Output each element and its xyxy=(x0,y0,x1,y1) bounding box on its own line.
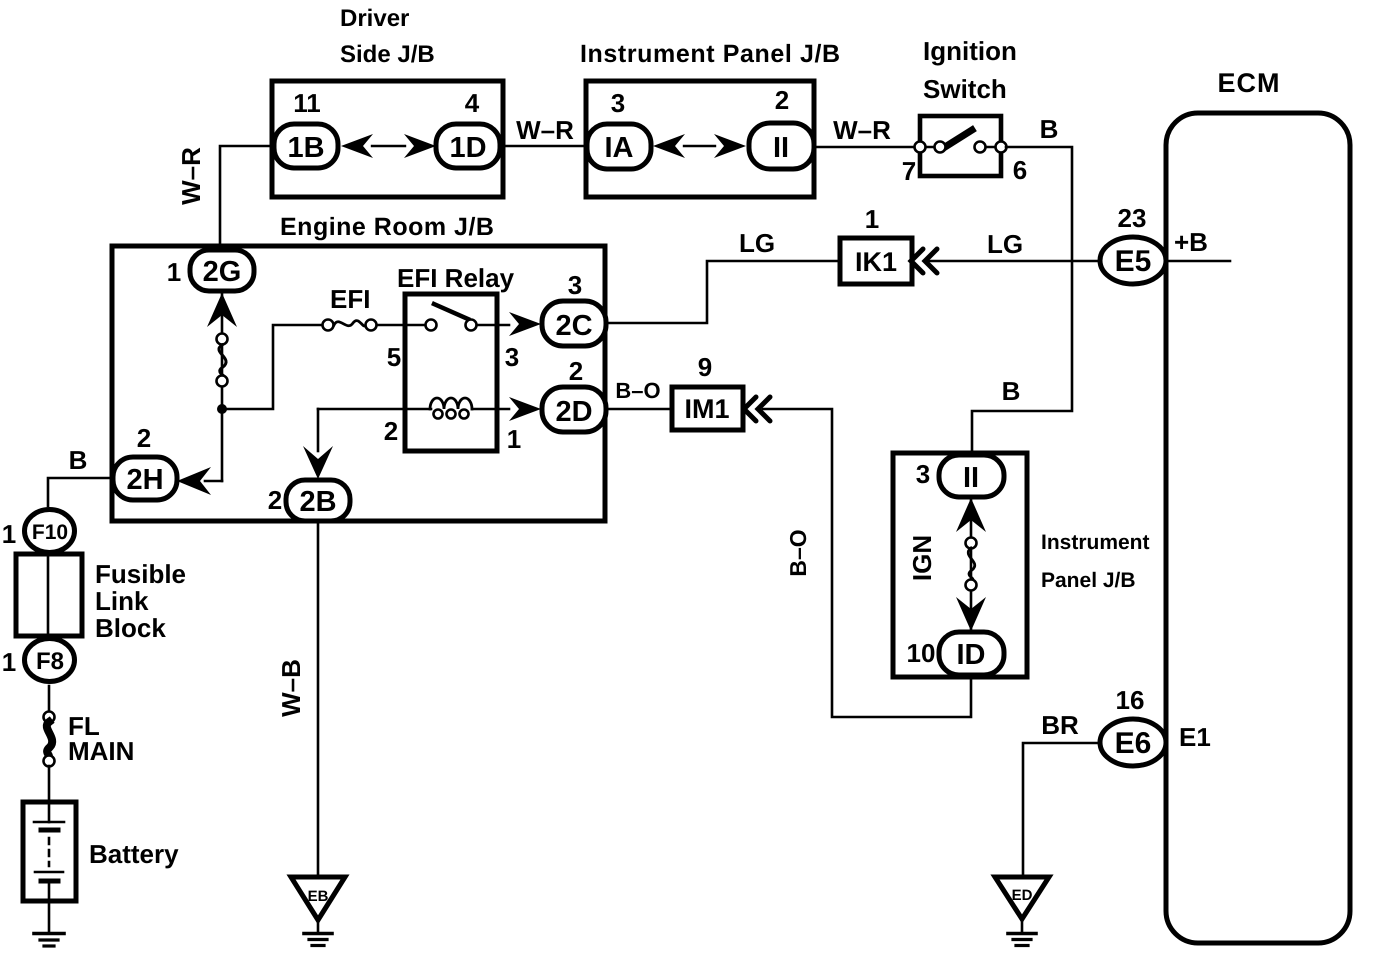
svg-text:ECM: ECM xyxy=(1218,68,1281,98)
svg-text:Driver: Driver xyxy=(340,5,409,32)
ground ED triangle xyxy=(995,877,1049,919)
battery internal lead top xyxy=(48,802,51,822)
svg-text:ED: ED xyxy=(1012,887,1033,904)
ground ED stem and bars xyxy=(1021,919,1024,932)
wire FL MAIN to battery xyxy=(48,766,51,802)
svg-text:23: 23 xyxy=(1118,203,1147,233)
wire 1B to left then down xyxy=(220,146,274,250)
svg-text:1B: 1B xyxy=(287,132,324,164)
ground battery bars xyxy=(34,932,64,936)
svg-text:3: 3 xyxy=(568,270,582,300)
svg-text:11: 11 xyxy=(293,88,321,118)
fuse 2G-2H upper terminal xyxy=(217,334,228,345)
arrow up below II xyxy=(956,498,986,532)
svg-text:B: B xyxy=(1002,376,1021,406)
svg-text:3: 3 xyxy=(611,88,625,118)
svg-text:2: 2 xyxy=(384,416,398,446)
svg-text:1: 1 xyxy=(865,204,879,234)
svg-text:IA: IA xyxy=(605,132,634,164)
arrow down into 2B xyxy=(303,446,333,479)
fuse EFI squiggle xyxy=(334,321,366,326)
junction block Engine Room J/B xyxy=(112,246,605,521)
battery cell2 negative plate xyxy=(41,879,58,884)
svg-text:II: II xyxy=(963,462,979,494)
svg-text:E5: E5 xyxy=(1115,245,1152,278)
ECM body xyxy=(1166,113,1350,943)
svg-text:1: 1 xyxy=(2,519,16,549)
wire between arrows xyxy=(684,145,715,147)
svg-text:9: 9 xyxy=(698,352,712,382)
connector 2G xyxy=(190,250,254,291)
switch contact lines xyxy=(920,146,936,148)
relay coil xyxy=(430,398,472,409)
wire F8 to FL MAIN xyxy=(48,686,51,712)
switch pin circles xyxy=(915,142,926,153)
switch lever xyxy=(945,130,972,147)
battery box xyxy=(23,802,76,901)
connector 2C xyxy=(542,301,606,346)
arrow left into 1B xyxy=(341,134,373,158)
svg-text:EB: EB xyxy=(308,888,329,905)
svg-text:2G: 2G xyxy=(203,256,242,288)
arrow right into 1D xyxy=(404,134,436,158)
fuse IGN upper terminal xyxy=(966,538,977,549)
svg-text:2C: 2C xyxy=(555,310,592,342)
wire relay switch out xyxy=(477,324,509,327)
ignition switch box xyxy=(920,116,1001,176)
SECTION: engine room JB xyxy=(112,213,606,521)
junction block Driver Side J/B xyxy=(272,81,503,197)
svg-text:5: 5 xyxy=(387,342,401,372)
wire E5 into ECM xyxy=(1166,260,1230,263)
arrow down above ID xyxy=(956,597,986,631)
svg-text:2: 2 xyxy=(775,85,789,115)
svg-text:4: 4 xyxy=(465,88,480,118)
svg-text:W–R: W–R xyxy=(516,115,574,145)
wire battery to ground xyxy=(48,901,51,932)
wire II to ID inside IGN xyxy=(970,497,973,632)
svg-text:2H: 2H xyxy=(126,464,163,496)
wire 2H to F10 xyxy=(48,478,113,506)
svg-text:Ignition: Ignition xyxy=(923,36,1017,66)
svg-text:2: 2 xyxy=(569,356,583,386)
svg-text:16: 16 xyxy=(1116,685,1145,715)
battery cell1 negative plate xyxy=(41,828,58,833)
svg-text:B–O: B–O xyxy=(615,378,660,403)
connector 1B xyxy=(274,124,338,168)
wire IM1 to ID loop xyxy=(763,409,971,717)
svg-text:Switch: Switch xyxy=(923,74,1007,104)
fuse IGN lower terminal xyxy=(966,580,977,591)
connector 2D xyxy=(542,387,606,432)
wire 2B to EB ground xyxy=(317,520,320,877)
svg-text:E1: E1 xyxy=(1179,722,1211,752)
junction node xyxy=(217,404,227,414)
fuse lower terminal xyxy=(217,376,228,387)
wire between arrows xyxy=(372,145,405,147)
wire coil out xyxy=(472,408,509,411)
svg-text:6: 6 xyxy=(1013,155,1027,185)
wire through fusible link block xyxy=(47,556,50,639)
svg-text:Side J/B: Side J/B xyxy=(340,41,435,68)
connector IA xyxy=(587,124,651,169)
connector 1D xyxy=(436,124,500,168)
ground EB stem and bars xyxy=(317,920,320,932)
relay switch contact right xyxy=(466,320,477,331)
fusible link FL MAIN lower terminal xyxy=(44,756,55,767)
svg-text:W–R: W–R xyxy=(833,115,891,145)
fuse squiggle vertical xyxy=(219,345,226,377)
junction block Instrument Panel (IGN) xyxy=(893,453,1027,677)
connector II lower xyxy=(939,455,1004,497)
svg-text:F8: F8 xyxy=(36,648,64,675)
relay switch lever xyxy=(434,304,468,319)
svg-text:Battery: Battery xyxy=(89,839,179,869)
connector ID xyxy=(939,632,1004,675)
svg-text:7: 7 xyxy=(902,156,916,186)
svg-text:B: B xyxy=(69,445,88,475)
svg-text:1: 1 xyxy=(2,647,16,677)
svg-text:10: 10 xyxy=(907,638,936,668)
wire coil row to 2B xyxy=(317,409,320,451)
svg-text:2: 2 xyxy=(268,485,282,515)
connector II xyxy=(749,123,814,169)
svg-text:BR: BR xyxy=(1041,710,1079,740)
wire 2G down to junction xyxy=(221,291,224,481)
battery cell1 positive plate xyxy=(34,821,64,824)
svg-text:IK1: IK1 xyxy=(855,247,897,277)
svg-text:2B: 2B xyxy=(299,486,336,518)
svg-text:+B: +B xyxy=(1174,227,1208,257)
fuse EFI left terminal xyxy=(323,320,334,331)
wire 2D to IM1 xyxy=(606,408,672,411)
SECTION: top junction blocks xyxy=(176,5,1072,456)
svg-text:2D: 2D xyxy=(555,396,592,428)
svg-text:Link: Link xyxy=(95,586,149,616)
svg-text:Instrument Panel J/B: Instrument Panel J/B xyxy=(580,40,841,68)
connector F10 xyxy=(25,510,75,553)
svg-text:3: 3 xyxy=(505,342,519,372)
svg-text:Fusible: Fusible xyxy=(95,559,186,589)
relay box xyxy=(405,294,497,451)
svg-text:B: B xyxy=(1040,114,1059,144)
svg-text:MAIN: MAIN xyxy=(68,736,134,766)
SECTION: right side ECM xyxy=(606,68,1350,946)
fusible link FL MAIN upper terminal xyxy=(44,712,55,723)
battery cell2 positive plate xyxy=(35,871,63,874)
wire IK1 to E5 xyxy=(927,260,1101,263)
junction block Instrument Panel J/B xyxy=(586,81,814,197)
wire switch to B vertical xyxy=(972,147,1072,456)
wire coil row xyxy=(318,408,431,411)
svg-text:Engine Room J/B: Engine Room J/B xyxy=(280,213,494,241)
svg-text:B–O: B–O xyxy=(785,529,811,576)
fuse EFI right terminal xyxy=(366,320,377,331)
arrow right into 2D xyxy=(509,397,541,421)
wire E6 to ED ground xyxy=(1023,743,1100,877)
wire EFI fuse to relay switch xyxy=(377,324,426,327)
svg-text:LG: LG xyxy=(987,229,1023,259)
connector E5 xyxy=(1100,237,1166,284)
wire 1D to IA xyxy=(500,145,587,148)
svg-text:IGN: IGN xyxy=(907,535,937,581)
battery dashed link xyxy=(48,838,51,866)
connector IM1 xyxy=(672,387,743,430)
arrow left into 2H xyxy=(177,467,211,495)
battery internal lead bottom xyxy=(48,881,51,901)
svg-text:Panel J/B: Panel J/B xyxy=(1041,569,1136,592)
svg-text:W–B: W–B xyxy=(276,659,306,717)
arrow up into 2G xyxy=(207,293,237,327)
svg-text:1: 1 xyxy=(167,257,181,287)
arrow left into IA xyxy=(653,134,685,158)
svg-text:Block: Block xyxy=(95,613,166,643)
arrow right into 2C xyxy=(509,312,541,336)
svg-text:3: 3 xyxy=(916,459,930,489)
wire junction to EFI fuse row xyxy=(222,325,322,409)
svg-text:ID: ID xyxy=(957,639,986,671)
connector 2B xyxy=(286,480,350,521)
arrow right into II xyxy=(714,134,746,158)
svg-text:IM1: IM1 xyxy=(684,394,729,424)
wire junction down to 2H xyxy=(205,480,222,483)
connector IK1 xyxy=(840,238,912,284)
svg-text:W–R: W–R xyxy=(176,147,206,205)
svg-text:1: 1 xyxy=(507,424,521,454)
svg-text:EFI: EFI xyxy=(330,284,370,314)
svg-text:LG: LG xyxy=(739,228,775,258)
fusible link block box xyxy=(16,554,82,636)
svg-text:1D: 1D xyxy=(449,132,486,164)
connector F8 xyxy=(25,639,75,682)
svg-text:II: II xyxy=(773,132,789,164)
ground EB triangle xyxy=(291,877,345,920)
svg-text:F10: F10 xyxy=(32,521,68,544)
svg-text:Instrument: Instrument xyxy=(1041,531,1150,554)
chevrons at IK1 xyxy=(911,249,923,273)
connector 2H xyxy=(113,457,177,500)
connector E6 xyxy=(1100,719,1166,766)
svg-text:E6: E6 xyxy=(1115,727,1152,760)
svg-text:2: 2 xyxy=(137,423,151,453)
relay switch contact left xyxy=(426,320,437,331)
chevrons at IM1 xyxy=(744,397,756,421)
SECTION: left column battery xyxy=(2,445,345,946)
fuse IGN squiggle xyxy=(968,548,975,580)
wire II to ignition switch xyxy=(814,146,920,149)
svg-text:EFI Relay: EFI Relay xyxy=(397,263,515,293)
wire 2C to IK1 xyxy=(606,261,840,323)
fusible link FL MAIN element xyxy=(47,722,52,756)
